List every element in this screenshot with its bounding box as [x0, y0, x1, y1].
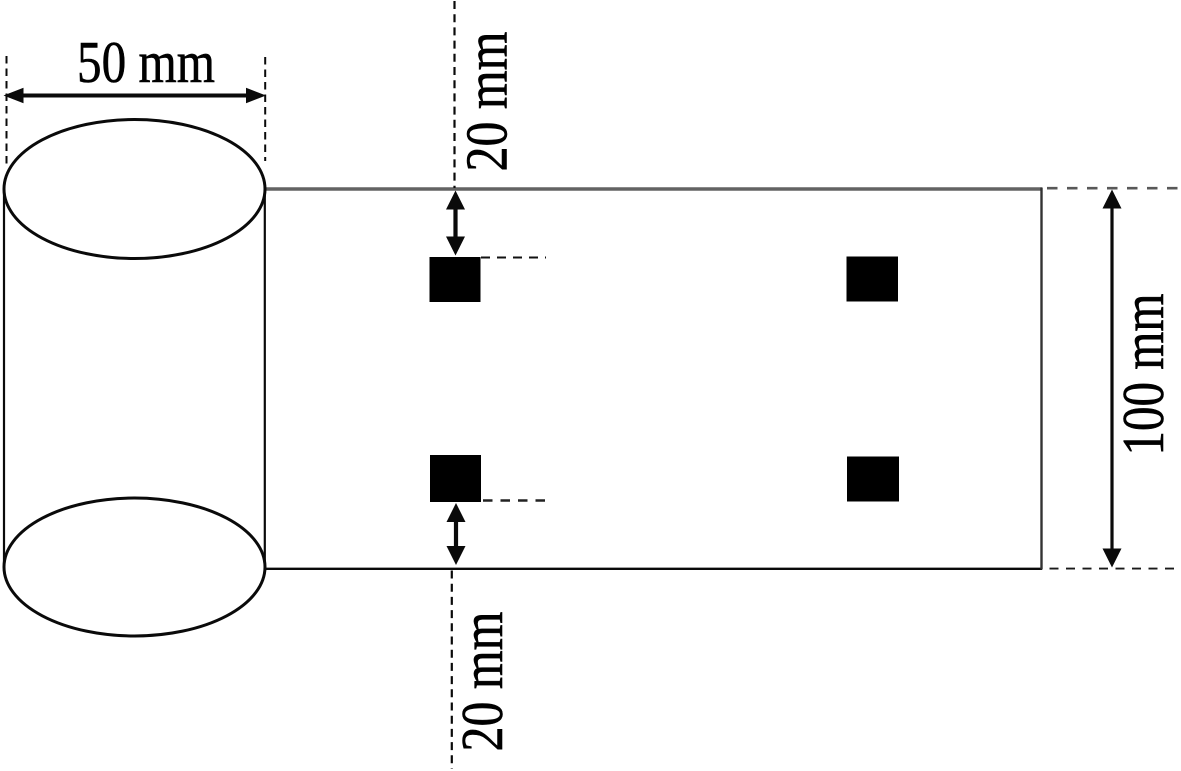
- wire: web bottom edge: [264, 568, 1042, 570]
- wire: web right edge: [1040, 188, 1042, 570]
- svg-text:20 mm: 20 mm: [454, 32, 520, 172]
- wire: centerline dashed above web: [453, 1, 455, 188]
- node: 50 mm dimension arrow: [4, 88, 267, 103]
- node: marker square bottom-right: [847, 457, 899, 502]
- svg-text:100 mm: 100 mm: [1110, 294, 1176, 456]
- svg-text:50 mm: 50 mm: [77, 29, 215, 95]
- wire: extension dashed left of 50mm: [6, 56, 8, 167]
- wire: extension dashed right of 50mm: [264, 57, 266, 161]
- node: roller right side: [264, 189, 266, 568]
- node: 20 mm top dimension arrow: [446, 191, 465, 256]
- node: 20 mm bottom dimension arrow: [447, 503, 466, 565]
- node: marker square top-left: [430, 257, 481, 302]
- node: roller bottom ellipse: [4, 498, 265, 636]
- node: 100 mm dimension arrow: [1103, 190, 1122, 568]
- node: marker square top-right: [847, 257, 899, 302]
- wire: extension dashed right bottom: [1050, 568, 1181, 570]
- node: roller left side: [3, 189, 5, 568]
- wire: reference dashed at bottom-left square: [483, 499, 549, 502]
- wire: reference dashed at top-left square: [481, 257, 546, 259]
- node: marker square bottom-left: [430, 455, 481, 502]
- svg-text:20 mm: 20 mm: [449, 612, 515, 752]
- node: roller top ellipse: [4, 120, 265, 259]
- wire: centerline dashed below web: [451, 571, 453, 770]
- wire: web top edge: [265, 187, 1042, 191]
- wire: extension dashed right top: [1047, 187, 1181, 190]
